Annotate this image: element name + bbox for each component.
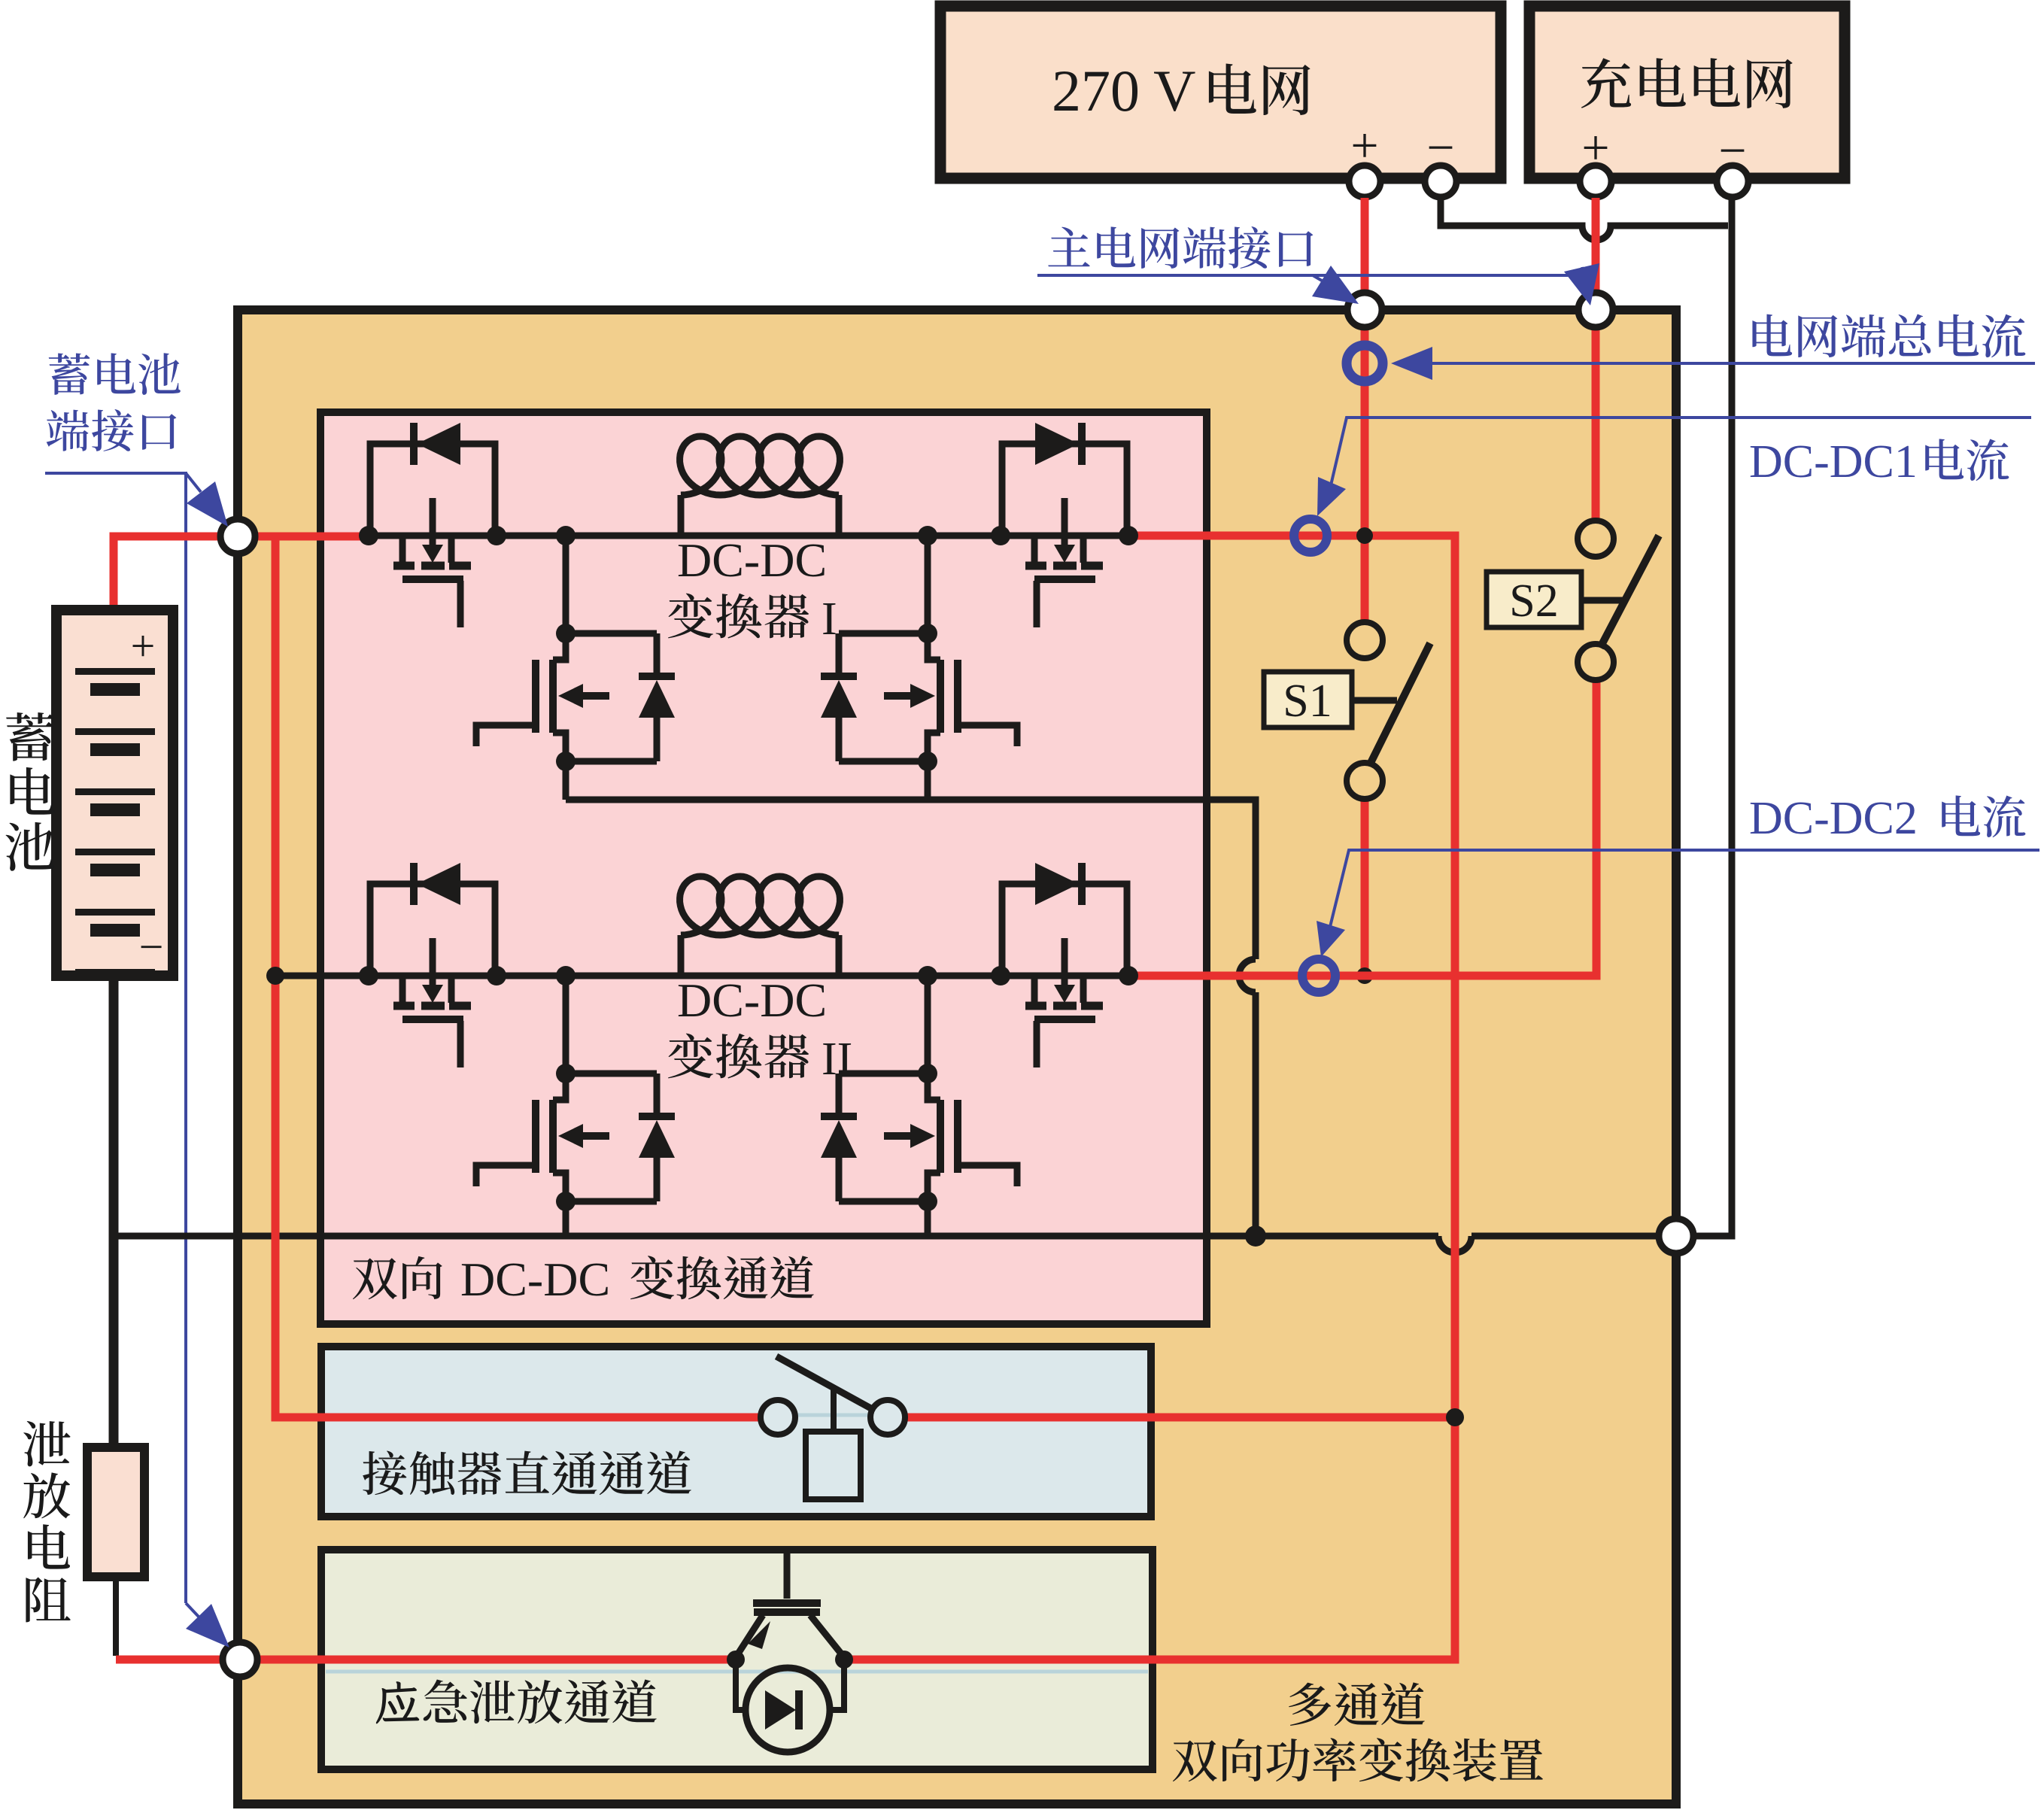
DC1 rail [366,533,1130,539]
DC1 inductor L1 [678,495,685,536]
contactor lever [776,1356,875,1411]
interface node discharge-side [223,1642,257,1677]
interface node main-grid 2 [1578,293,1613,327]
DC2 bridge drop right [925,976,931,1074]
sensor DC-DC2 current [1302,959,1335,992]
red S1 to DC2 rail [1361,799,1369,976]
bus hop over red riser [1438,1236,1471,1253]
DC2 inductor L2 [678,935,685,976]
switch S2 contacts [1578,521,1614,557]
discharge diode circle [746,1668,830,1752]
DC-DC2 current pointer [1329,850,2039,933]
red discharge line [116,1656,737,1664]
terminal 270V minus [1425,166,1456,197]
svg-text:S2: S2 [1509,575,1558,627]
S2 link [1581,597,1625,604]
S1 label box [1264,672,1352,727]
svg-text:DC-DC: DC-DC [677,533,827,587]
svg-text:S1: S1 [1283,676,1332,727]
contactor coil box [806,1432,861,1499]
S1 link [1352,697,1397,704]
wire 270V minus drop [1441,198,1728,240]
discharge transistor bars [753,1599,821,1607]
red DC1 rail out [843,536,1455,1660]
device box (multi-channel converter) [238,310,1676,1804]
label multichannel line1 [1289,1683,1331,1726]
battery arrow top [186,473,201,492]
wire charge minus vertical [1695,198,1732,1236]
main grid pointer line [1037,274,1584,277]
discharge transistor gate [784,1547,791,1599]
charge grid box [1529,6,1845,178]
S2 label box [1487,572,1581,627]
discharge diode [765,1690,796,1730]
contactor channel box [321,1347,1151,1517]
interface node charge-minus [1659,1219,1693,1253]
battery box [56,610,173,976]
label discharge channel [376,1681,419,1723]
DC-DC1 current pointer [1331,418,2031,485]
interface node main-grid 1 [1347,293,1382,327]
DC2 rail [366,973,1130,979]
grid total current pointer [1433,362,2035,365]
battery interface pointer line (under wires) [45,473,186,1603]
terminal charge minus [1717,166,1748,197]
DC1 bridge right MOSFET Q4 [937,660,944,733]
DC2 right MOSFET Q6 [1002,884,1127,976]
DC1 bridge drop right [925,536,931,633]
junction dot S1/DC2-rail [1356,967,1373,984]
svg-text:DC-DC: DC-DC [677,973,827,1027]
DC2 bridge left MOSFET Q7 [549,1100,557,1173]
main grid arrow 1 [1313,275,1322,281]
DC1 bridge left MOSFET Q3 [549,660,557,733]
red charge plus drop [1592,198,1600,521]
DC1 right MOSFET Q2 [1002,444,1127,536]
label bidirectional DC-DC channel [353,1258,397,1299]
DC2 bridge left diode D7 [566,1074,657,1201]
label main grid interface [1048,227,1090,267]
hop DC1-drop over DC2 red [1239,959,1256,992]
svg-text:270 V: 270 V [1052,58,1195,123]
DC2 bridge drop left [563,976,569,1074]
junction dot bus/DC1-drop [1245,1225,1266,1247]
discharge node dots [727,1651,745,1669]
DC2 bridge legs to bus [566,1201,928,1236]
label battery interface line1 [49,353,90,394]
wire negative bus [114,1233,1660,1240]
label multichannel line2 [1173,1740,1217,1781]
label battery (vertical) [6,712,54,761]
wire resistor to red [113,1576,119,1656]
junction dot DC1-out/main-grid [1356,527,1373,544]
label charge grid [1581,58,1631,108]
DC1 bridge legs to bottom rail [566,761,928,800]
DC2 bridge right MOSFET Q8 [937,1100,944,1173]
red riser to contactor [275,536,761,1417]
red battery plus [114,536,366,670]
label discharge resistor (vertical) [23,1421,70,1466]
label contactor channel [363,1450,406,1495]
switch S1 contacts [1347,622,1383,658]
DC1 left MOSFET Q1 [370,444,495,536]
discharge channel box [321,1550,1153,1769]
svg-text:I: I [822,594,837,645]
sensor grid total current [1347,345,1383,381]
red contactor out [904,1414,1455,1422]
sensor DC-DC1 current [1294,519,1327,552]
discharge resistor [87,1447,144,1577]
svg-text:−: − [139,922,164,971]
battery arrow bottom [186,1603,199,1617]
battery cells [75,668,155,675]
contactor right terminal [870,1400,905,1435]
contactor stem [831,1388,837,1432]
discharge leg arrow [748,1621,770,1649]
pale line contactor [326,1414,1147,1417]
junction dot contactor out [1446,1408,1464,1426]
interface node battery-side [220,519,255,554]
label grid total current [1752,314,1792,357]
svg-text:DC-DC2: DC-DC2 [1749,793,1918,844]
DC-DC channel box (pink) [320,412,1207,1324]
DC1 bridge drop left [563,536,569,633]
red DC2 rail out [1128,680,1596,976]
discharge diode loop [736,1660,844,1710]
DC2 bridge right diode D8 [839,1074,928,1201]
red main-grid drop [1361,198,1369,622]
terminal charge plus [1580,166,1611,197]
wire battery minus [109,970,119,1452]
switch S2 lever [1600,536,1659,648]
switch S1 lever [1369,643,1430,766]
svg-text:DC-DC: DC-DC [460,1253,610,1306]
wire DC1 bottom-rail to bus [566,800,1256,1236]
DC2 left MOSFET Q5 [370,884,495,976]
junction dot DC2-rail feed [266,967,284,985]
discharge transistor legs [736,1615,763,1657]
svg-text:DC-DC1: DC-DC1 [1749,436,1918,487]
svg-text:+: + [131,621,156,670]
terminal 270V plus [1349,166,1380,197]
grid box 270V [940,6,1501,178]
pale line discharge [326,1670,1148,1674]
main grid arrow 2 [1582,267,1584,275]
wire DC2 left rail [275,973,370,979]
contactor left terminal [761,1400,795,1435]
DC1 bridge right diode D4 [839,633,928,761]
DC1 bridge left diode D3 [566,633,657,761]
label battery interface line2 [47,410,90,451]
